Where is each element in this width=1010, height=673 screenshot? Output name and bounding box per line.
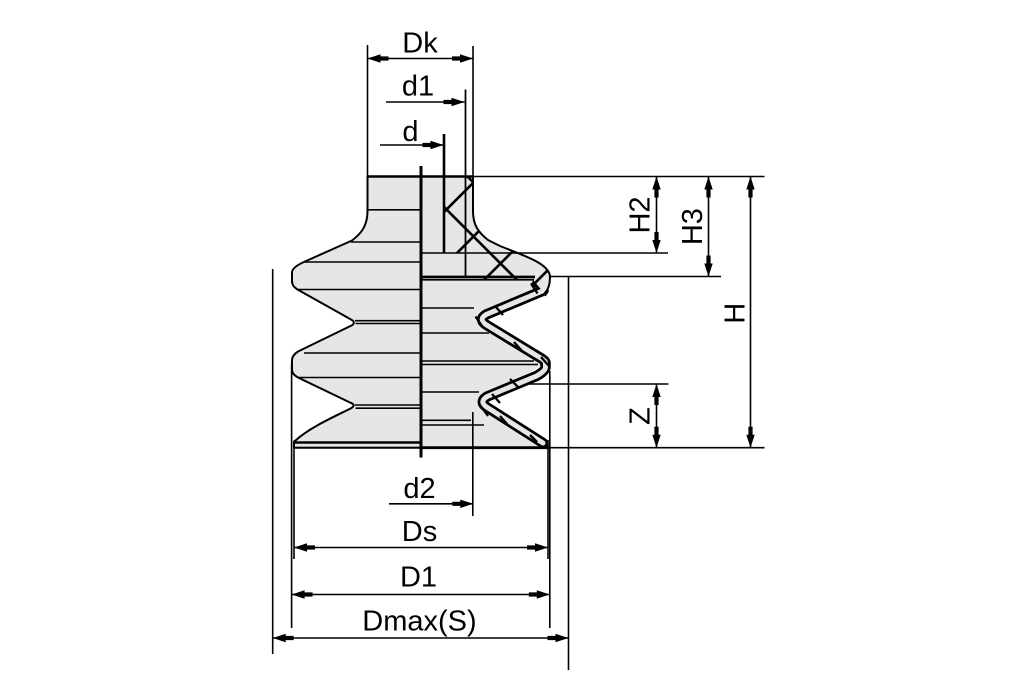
- dimension d: [380, 144, 444, 146]
- left half lip bottom thick edge: [294, 441, 421, 444]
- svg-text:d: d: [402, 116, 418, 148]
- dimension Z: [656, 384, 658, 448]
- dimension Dk: [368, 58, 474, 60]
- dimension H3: [708, 177, 710, 277]
- suction cup: right half interior (section) gray region: [421, 277, 549, 448]
- left half contour lines: [297, 210, 421, 408]
- suction cup: left half outside-view silhouette: [292, 177, 421, 448]
- svg-text:H2: H2: [625, 196, 657, 233]
- dimension d2: [389, 503, 473, 505]
- dimension D1 extension lines: [291, 364, 293, 629]
- top reference line to H dims: [473, 176, 765, 178]
- svg-text:Ds: Ds: [402, 516, 437, 548]
- svg-text:Dmax(S): Dmax(S): [362, 606, 476, 638]
- Z top reference line: [529, 383, 669, 385]
- dimension H2: [656, 177, 658, 254]
- bellows cut-wall band (gray core): [482, 291, 545, 444]
- neck right outer profile outline: [473, 177, 550, 294]
- right half interior contour lines: [421, 308, 538, 425]
- svg-text:H3: H3: [677, 208, 709, 245]
- top edge thick: [368, 175, 474, 178]
- svg-text:H: H: [720, 303, 752, 324]
- cross-hatch lines of threaded insert section: [299, 170, 648, 300]
- flange bottom thick line: [421, 276, 535, 279]
- dimension d2 extension line: [472, 412, 474, 516]
- svg-text:d2: d2: [403, 473, 435, 505]
- dimension H: [750, 177, 752, 448]
- dimension Dmax(S) extension lines: [272, 269, 274, 654]
- suction cup: right half neck section block: [421, 177, 550, 294]
- bottom reference line thin left: [294, 447, 421, 449]
- svg-text:Z: Z: [625, 407, 657, 425]
- svg-text:Dk: Dk: [402, 28, 438, 60]
- H3 reference line: [550, 276, 722, 278]
- dimension Ds: [294, 547, 548, 549]
- bottom reference line to H and Z: [549, 447, 765, 449]
- svg-text:d1: d1: [402, 71, 434, 103]
- dimension Ds extension lines: [293, 446, 295, 559]
- bore bottom / H2 reference line: [421, 252, 668, 254]
- dimension Dk extension lines: [367, 45, 369, 176]
- bore wall line d: [443, 134, 446, 253]
- center line: [420, 166, 423, 458]
- bottom edge thick right: [421, 446, 549, 449]
- band-to-flange junction fill: [531, 279, 549, 297]
- dimension Dmax(S): [273, 637, 569, 639]
- svg-text:D1: D1: [400, 562, 437, 594]
- dimension d1: [386, 101, 465, 103]
- dimension D1: [292, 594, 550, 596]
- bellows cut-wall band (black edges): [482, 291, 545, 444]
- insert wall line d1: [465, 90, 467, 277]
- hatch ticks on cut-wall band: [476, 284, 550, 443]
